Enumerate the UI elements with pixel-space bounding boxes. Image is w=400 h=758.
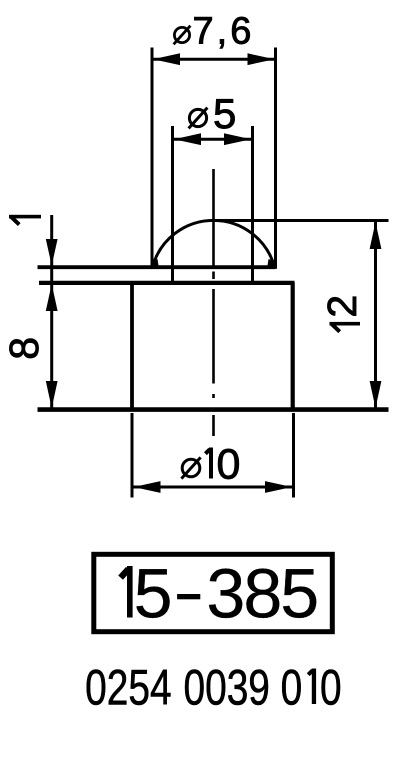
arrow dim12 top (up) bbox=[370, 222, 382, 249]
dimension line d7.6 bbox=[152, 58, 276, 61]
arrow dim1/8 middle (up) bbox=[46, 284, 58, 311]
arrow dim1 top (down) bbox=[46, 239, 58, 266]
extension line right d5 bbox=[251, 126, 254, 285]
label text 15: digit 1 manual bbox=[121, 566, 133, 618]
svg-text:0: 0 bbox=[320, 659, 342, 716]
dim symbol d5 bbox=[189, 108, 208, 129]
arrow d7.6 right bbox=[248, 53, 275, 65]
dome arc left end fill bbox=[151, 259, 159, 269]
body left edge bbox=[130, 283, 134, 410]
flange top edge + extension left bbox=[38, 265, 276, 269]
dim symbol d10 bbox=[181, 457, 200, 478]
extension line left d7.6 bbox=[151, 48, 154, 269]
arrow dim8 bottom (down) bbox=[46, 381, 58, 408]
centerline dot bbox=[212, 394, 215, 398]
extension line right d10 bbox=[292, 413, 295, 498]
svg-text:2: 2 bbox=[319, 295, 365, 318]
dome arc bbox=[153, 220, 275, 267]
part number word 010: digit 1 manual bbox=[308, 669, 316, 705]
centerline segment body bbox=[212, 289, 215, 384]
arrow d10 right bbox=[265, 481, 292, 493]
svg-text:5: 5 bbox=[134, 555, 173, 633]
label dash bbox=[177, 594, 200, 599]
label box 15-385 bbox=[94, 554, 332, 631]
extension line left d5 bbox=[171, 126, 174, 283]
dim symbol d7.6 bbox=[174, 26, 191, 45]
dome arc right end fill bbox=[267, 259, 275, 269]
svg-text:385: 385 bbox=[206, 555, 317, 633]
svg-text:0039: 0039 bbox=[183, 659, 269, 716]
svg-text:7,6: 7,6 bbox=[193, 11, 255, 53]
dimension line d5 bbox=[173, 138, 253, 141]
extension line top 12 bbox=[214, 219, 389, 222]
body right edge bbox=[291, 283, 295, 410]
left dimension line (1 and 8) bbox=[50, 215, 53, 409]
centerline segment in flange bbox=[212, 272, 215, 280]
centerline segment upper bbox=[212, 169, 215, 266]
svg-text:0: 0 bbox=[217, 441, 241, 489]
svg-text:0254: 0254 bbox=[85, 659, 171, 716]
extension line left d10 bbox=[131, 413, 134, 498]
dim text d10: digit 1 manual bbox=[205, 448, 213, 479]
dimension line d10 bbox=[132, 486, 294, 489]
arrow d5 left bbox=[174, 133, 201, 145]
svg-text:5: 5 bbox=[213, 90, 236, 137]
dim text 1 (rotated, manual glyph) bbox=[9, 215, 41, 225]
centerline tail bbox=[212, 415, 215, 436]
body top edge + extension left bbox=[39, 281, 295, 285]
svg-text:8: 8 bbox=[1, 337, 47, 360]
arrow d5 right bbox=[224, 133, 251, 145]
arrow d10 left bbox=[134, 481, 161, 493]
arrow dim12 bottom (down) bbox=[370, 381, 382, 408]
dim text 12 (rotated): digit 1 manual bbox=[330, 322, 361, 332]
svg-text:0: 0 bbox=[281, 659, 303, 716]
extension line right d7.6 bbox=[274, 48, 277, 269]
dimension line 12 bbox=[374, 221, 377, 410]
body bottom edge + extensions both sides bbox=[38, 407, 389, 412]
arrow d7.6 left bbox=[153, 53, 180, 65]
